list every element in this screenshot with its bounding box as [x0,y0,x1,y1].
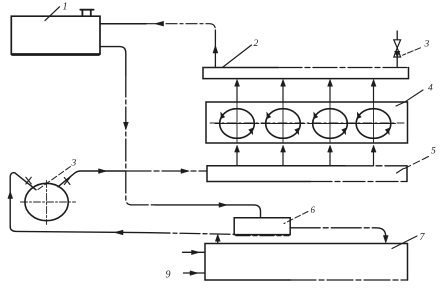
svg-text:3: 3 [424,40,430,50]
label 7 leader [392,236,417,249]
sump tank 7 [205,244,408,281]
arrow up on suction pipe [8,192,13,199]
svg-text:9: 9 [166,270,171,281]
label 4 leader [396,90,423,106]
arrow down on tank outlet [123,122,128,129]
wire: pump outlet to bar 5 [58,171,207,187]
arrow right 2 on pump outlet [181,169,189,174]
arrow 9 upper into sump [183,251,205,253]
journal circle J1 [215,102,259,143]
wire: suction pipe left vertical into pump [10,173,36,227]
svg-text:4: 4 [428,84,433,94]
engine block 4 [206,102,408,143]
arrow left on bottom line [115,230,124,235]
tank T1 body [11,16,100,55]
svg-text:6: 6 [311,205,316,215]
label 2 leader [223,45,252,67]
arrow up on riser to top pipe [213,46,218,54]
journal circle J4 [352,102,396,143]
tank T1 filler cap [80,10,93,17]
label 3 (pump) leader [38,167,71,190]
wire: filter 6 to sump 7 [290,228,386,237]
block 4 centerline [210,122,404,124]
wire: tank outlet down pipe [100,47,261,218]
label 5 leader [405,157,429,169]
svg-text:7: 7 [420,232,426,243]
arrow right on pipe to filter 6 [219,203,227,208]
label 3 (valve) leader [403,48,421,55]
journal circle J2 [261,102,305,143]
svg-text:5: 5 [431,147,436,157]
journal circle J3 [308,102,352,143]
arrow right on pump outlet [99,169,107,174]
wire: sump 7 tap up arrow [217,240,219,244]
svg-text:1: 1 [63,2,68,13]
svg-text:2: 2 [254,39,259,49]
arrow 9 lower into sump [184,272,205,274]
arrow down into sump 7 [383,236,388,243]
label 1 leader [45,7,60,21]
label 6 leader [284,212,308,224]
wire: sump bottom line to pump suction [10,227,234,235]
svg-text:3: 3 [71,159,77,169]
filter 6 body [234,218,290,236]
pump P3 circle [21,181,76,225]
gallery bar 2 [203,68,409,79]
wire: return pipe bar2 to tank (top) [100,23,146,25]
relief valve V3 [394,31,401,67]
risers block4 to bar2 with up arrows [237,82,374,103]
risers bar5 to block4 with up arrows [237,148,374,166]
arrow left on top pipe [155,21,164,26]
gallery bar 5 [207,166,407,182]
